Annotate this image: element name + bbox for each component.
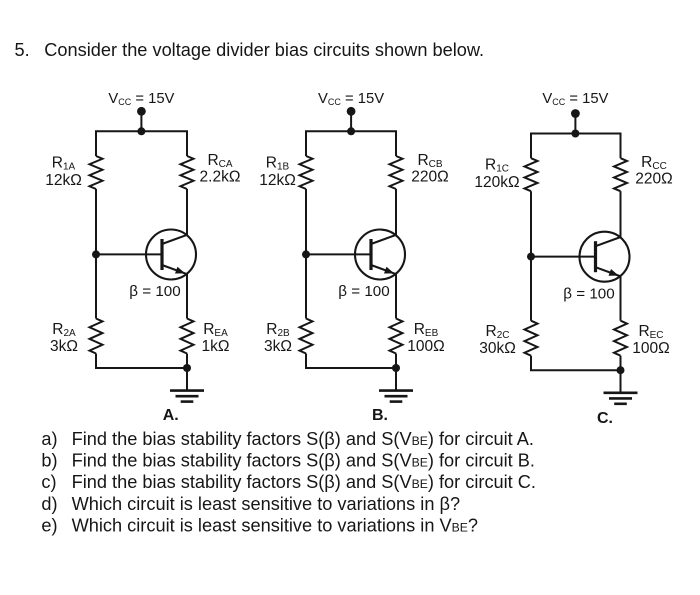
node top-rail junction (C) xyxy=(571,130,579,138)
svg-text:120kΩ: 120kΩ xyxy=(474,174,519,191)
wire top rail (C) xyxy=(530,133,622,135)
wire left branch lower (A) xyxy=(95,354,97,369)
svg-text:B.: B. xyxy=(372,407,388,424)
wire Vcc stem (A) xyxy=(140,111,142,131)
svg-text:2.2kΩ: 2.2kΩ xyxy=(200,168,241,185)
wire collector branch (A) xyxy=(186,189,188,235)
node top-rail junction (B) xyxy=(347,127,355,135)
node ground junction (B) xyxy=(392,364,400,372)
wire collector branch (C) xyxy=(620,191,622,237)
svg-text:a)Find the bias stability fact: a)Find the bias stability factors S(β) a… xyxy=(41,429,534,449)
transistor QC (NPN, β = 100) xyxy=(580,232,630,282)
resistor RCC xyxy=(614,158,627,191)
wire top rail (A) xyxy=(95,130,188,132)
ground (circuit A) xyxy=(170,368,204,402)
wire emitter to rail (A) xyxy=(186,354,188,369)
svg-text:e)Which circuit is least sensi: e)Which circuit is least sensitive to va… xyxy=(41,516,478,536)
wire emitter branch (C) xyxy=(620,276,622,321)
Vcc supply terminal (circuit A) xyxy=(137,107,146,116)
svg-text:30kΩ: 30kΩ xyxy=(479,340,516,357)
resistor R2B xyxy=(300,319,313,354)
wire left branch upper (A) xyxy=(95,131,97,156)
svg-text:12kΩ: 12kΩ xyxy=(259,172,296,189)
ground (circuit C) xyxy=(604,370,638,404)
Vcc supply terminal (circuit C) xyxy=(571,109,580,118)
node top-rail junction (A) xyxy=(137,127,145,135)
svg-text:3kΩ: 3kΩ xyxy=(264,338,292,355)
wire base lead (C) xyxy=(531,256,596,258)
resistor R2A xyxy=(90,319,103,354)
svg-text:d)Which circuit is least sensi: d)Which circuit is least sensitive to va… xyxy=(41,494,460,514)
svg-text:β = 100: β = 100 xyxy=(129,283,180,300)
svg-text:100Ω: 100Ω xyxy=(407,338,444,355)
wire emitter to rail (B) xyxy=(395,354,397,369)
svg-text:C.: C. xyxy=(597,410,613,427)
wire base lead (B) xyxy=(306,253,371,255)
wire right branch upper (A) xyxy=(186,131,188,156)
wire left branch middle (A) xyxy=(95,189,97,319)
node ground junction (A) xyxy=(183,364,191,372)
resistor REC xyxy=(614,321,627,356)
transistor QB (NPN, β = 100) xyxy=(355,230,405,280)
wire emitter branch (B) xyxy=(395,274,397,319)
wire emitter branch (A) xyxy=(186,274,188,319)
wire bottom rail (A) xyxy=(95,367,188,369)
svg-text:5.Consider the voltage divider: 5.Consider the voltage divider bias circ… xyxy=(15,40,485,60)
resistor REB xyxy=(390,319,403,354)
Vcc supply terminal (circuit B) xyxy=(347,107,356,116)
ground (circuit B) xyxy=(379,368,413,402)
wire left branch lower (C) xyxy=(530,356,532,371)
node base junction (B) xyxy=(302,250,310,258)
resistor R1A xyxy=(90,156,103,189)
wire base lead (A) xyxy=(96,253,162,255)
svg-text:b)Find the bias stability fact: b)Find the bias stability factors S(β) a… xyxy=(41,451,535,471)
resistor REA xyxy=(181,319,194,354)
svg-text:A.: A. xyxy=(163,407,179,424)
svg-text:β = 100: β = 100 xyxy=(338,283,389,300)
wire left branch upper (B) xyxy=(305,131,307,156)
svg-text:c)Find the bias stability fact: c)Find the bias stability factors S(β) a… xyxy=(41,472,536,492)
wire emitter to rail (C) xyxy=(620,356,622,371)
wire left branch lower (B) xyxy=(305,354,307,369)
node ground junction (C) xyxy=(617,366,625,374)
svg-text:220Ω: 220Ω xyxy=(635,171,672,188)
wire bottom rail (B) xyxy=(305,367,397,369)
wire left branch upper (C) xyxy=(530,134,532,159)
wire right branch upper (C) xyxy=(620,134,622,159)
resistor R2C xyxy=(525,321,538,356)
wire bottom rail (C) xyxy=(530,369,622,371)
node base junction (C) xyxy=(527,253,535,261)
resistor R1C xyxy=(525,158,538,191)
wire Vcc stem (B) xyxy=(350,111,352,131)
svg-text:100Ω: 100Ω xyxy=(632,340,669,357)
wire right branch upper (B) xyxy=(395,131,397,156)
transistor QA (NPN, β = 100) xyxy=(146,230,196,280)
resistor R1B xyxy=(300,156,313,189)
resistor RCA xyxy=(181,156,194,189)
node base junction (A) xyxy=(92,250,100,258)
wire Vcc stem (C) xyxy=(574,114,576,134)
wire left branch middle (B) xyxy=(305,189,307,319)
svg-text:1kΩ: 1kΩ xyxy=(202,338,230,355)
wire top rail (B) xyxy=(305,130,397,132)
svg-text:220Ω: 220Ω xyxy=(411,168,448,185)
wire left branch middle (C) xyxy=(530,191,532,321)
svg-text:β = 100: β = 100 xyxy=(563,285,614,302)
resistor RCB xyxy=(390,156,403,189)
svg-text:12kΩ: 12kΩ xyxy=(45,172,82,189)
wire collector branch (B) xyxy=(395,189,397,235)
svg-text:3kΩ: 3kΩ xyxy=(50,338,78,355)
